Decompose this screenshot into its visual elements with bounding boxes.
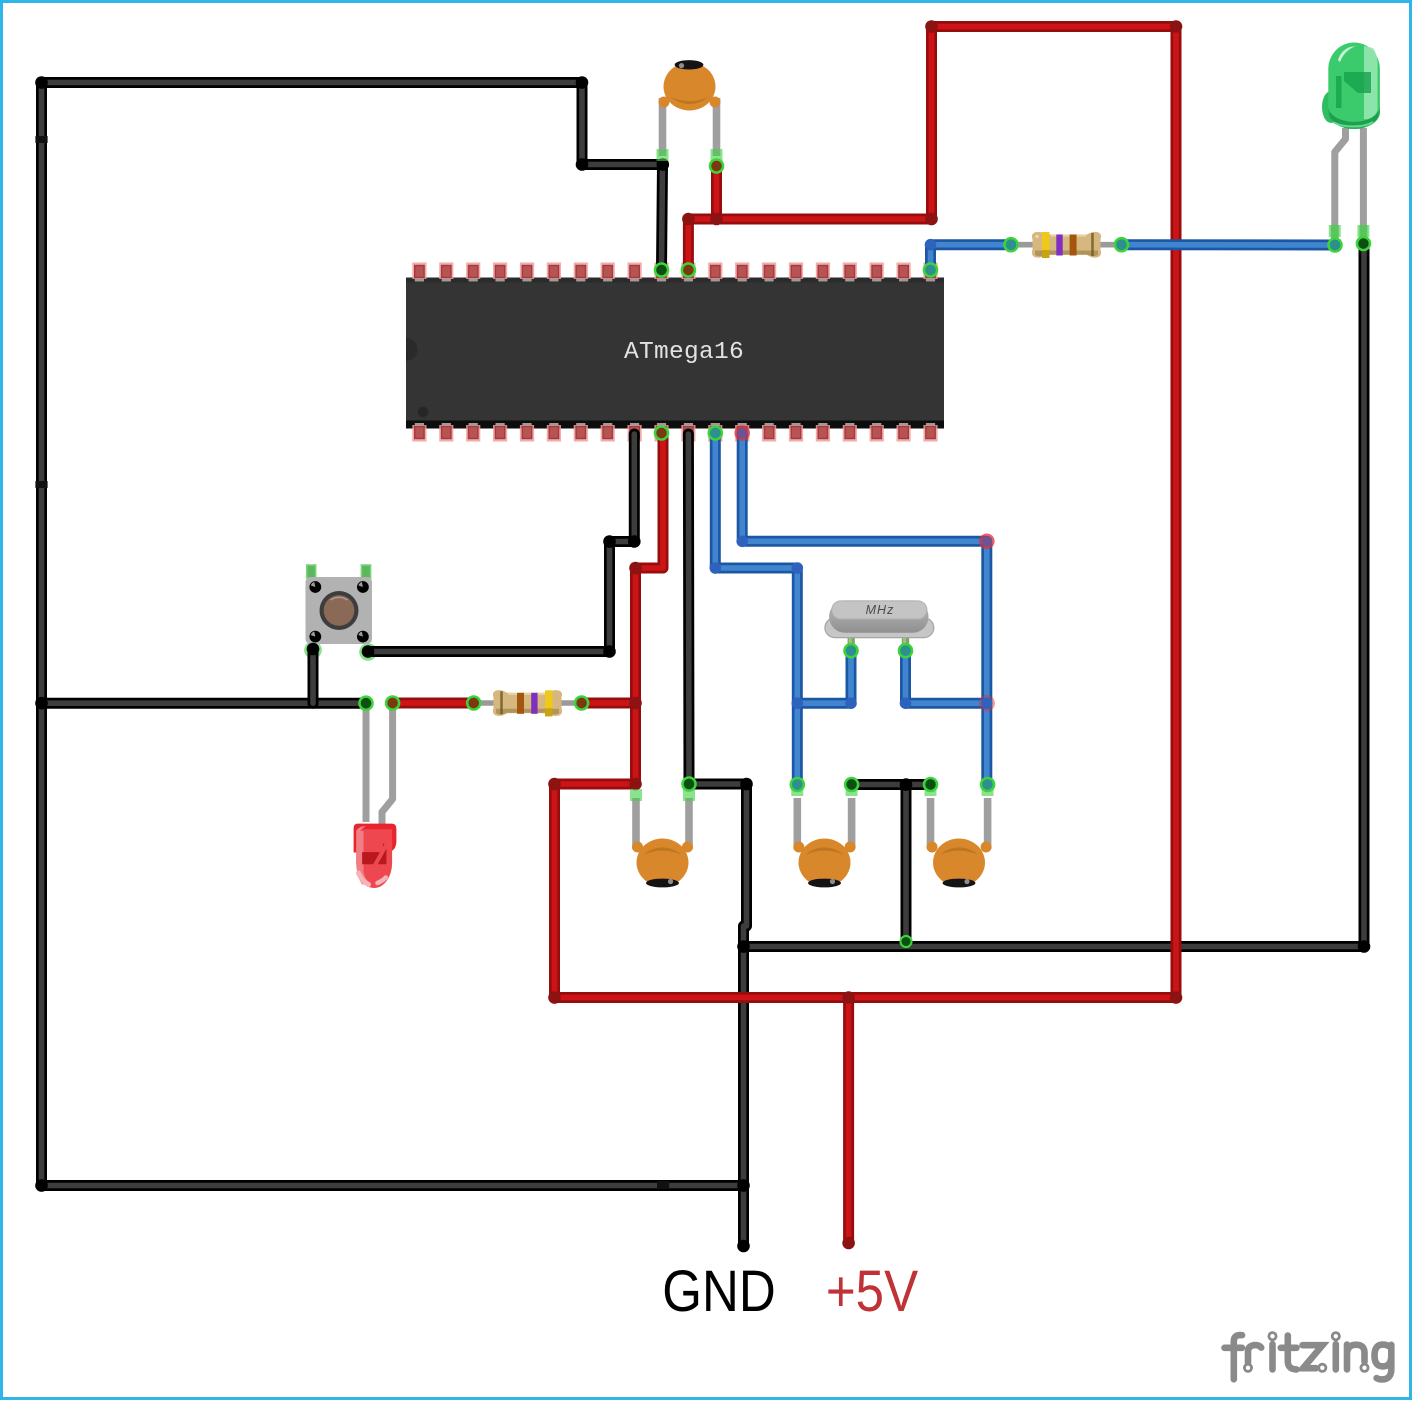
label GND [662, 1259, 775, 1324]
connection node (signal wire end) at 905.5,650.7 [899, 644, 912, 657]
junction (+5V net) at 635.5,703 [629, 697, 642, 710]
resistor R2 470R (brown-violet-yellow, red net) [474, 690, 581, 716]
fritzing logo [1225, 1333, 1392, 1380]
resistor R1 470R (yellow-violet-brown, blue net) [1012, 232, 1121, 258]
junction (+5V net) at 1176,997.5 [1170, 991, 1183, 1004]
pin highlight square at 689,795 [683, 789, 695, 801]
svg-text:GND: GND [662, 1259, 775, 1324]
wire IC pin20 up [925, 245, 936, 269]
wire XTAL2 path [742, 434, 987, 785]
wire GND bottom bus [744, 941, 1365, 952]
junction (+5V net) at 554.5,997.5 [548, 991, 561, 1004]
wire S1 pin4 right [368, 646, 610, 657]
junction (GND net) at 662.8,164.5 [657, 158, 670, 171]
junction (GND net) at 746.5,784 [740, 778, 753, 791]
bend (blue net) at 905.5,703.2 [900, 697, 912, 709]
connection node (+5V wire end) at 473.7,703 [467, 697, 480, 710]
junction (GND net) at 41.5,1185.5 [35, 1179, 48, 1192]
bend (blue net) at 797.3,568 [792, 562, 804, 574]
connection node (GND wire end) at 851.6,784.5 [845, 778, 858, 791]
junction (GND net) at 609.5,541.5 [603, 535, 616, 548]
bend node at 986.8,703.2 [980, 696, 994, 710]
label +5V [826, 1259, 919, 1324]
junction (GND net) at 743.5,1246 [737, 1240, 750, 1253]
wire joint mark at 41.5,140 [35, 136, 47, 143]
junction (GND net) at 313,649 [307, 643, 320, 656]
junction (+5V net) at 931.5,26.5 [925, 20, 938, 33]
wire GND top horizontal [42, 77, 583, 88]
junction (GND net) at 906,784.5 [900, 778, 913, 791]
wire R2 to +5V vertical [582, 698, 636, 709]
wire +5V to IC pin11 [683, 219, 694, 269]
wire junction down to bus [901, 785, 912, 942]
junction (+5V net) at 931.5,219 [925, 213, 938, 226]
junction (+5V net) at 848.6,997.5 [842, 991, 855, 1004]
wire LED D2 anode to R2 [393, 698, 474, 709]
junction (GND net) at 743.5,1185.5 [737, 1179, 750, 1192]
wire +5V stub [843, 998, 854, 1244]
connection node (GND wire end) at 930.5,784.5 [924, 778, 937, 791]
connection node (GND wire end) at 366,703.2 [360, 697, 373, 710]
junction (+5V net) at 716.5,219 [710, 213, 723, 226]
wire to crystal right pin [906, 651, 987, 704]
wire pin20 to R1 [931, 239, 1013, 250]
wire +5V mid vertical [636, 434, 664, 784]
connection node (+5V wire end) at 716.5,166 [710, 160, 723, 173]
connection node (GND wire end) at 689,784 [683, 778, 696, 791]
pin highlight square at 1363.4,231 [1357, 225, 1369, 237]
connection node (signal wire end) at 1335,245 [1329, 239, 1342, 252]
junction (+5V net) at 635.5,568 [629, 562, 642, 575]
connection node (GND wire end) at 661.5,270 [655, 264, 668, 277]
pin highlight square at 636,795 [630, 789, 642, 801]
svg-text:ATmega16: ATmega16 [624, 339, 744, 366]
crystal X1 (MHz) [825, 600, 934, 652]
connection node (signal wire end) at 797.3,784.5 [791, 778, 804, 791]
junction (+5V net) at 635.5,784 [629, 778, 642, 791]
wire R1 to LED D1 anode [1121, 239, 1335, 250]
bend (blue net) at 742.2,541.3 [736, 536, 748, 548]
junction (+5V net) at 554.5,784 [548, 778, 561, 791]
wire C3 right to junction [852, 779, 906, 790]
svg-text:MHz: MHz [866, 603, 895, 617]
junction (GND net) at 1364,946.5 [1358, 940, 1371, 953]
bend node at 986.8,541.3 [980, 535, 993, 548]
pin highlight square at 930.5,790 [925, 784, 937, 796]
connection node (+5V wire end) at 661.5,433 [655, 427, 668, 440]
pin highlight square at 662.5,155 [657, 149, 669, 161]
pin highlight square at 797.3,790 [791, 784, 803, 796]
junction (GND net) at 41.5,82.5 [35, 76, 48, 89]
junction (GND net) at 368,651.5 [362, 645, 375, 658]
wire joint mark at 663,1185 [657, 1181, 669, 1188]
junction (+5V net) at 688.4,219 [682, 213, 695, 226]
wire S1 riser [610, 434, 635, 652]
connection node (signal wire end) at 1121.5,244.7 [1115, 238, 1128, 251]
wire GND bottom long [42, 1180, 744, 1191]
pin highlight square at 987.6,790 [982, 784, 994, 796]
junction (GND net) at 41.5,703.2 [35, 697, 48, 710]
connection node (signal wire end) at 1011,244.7 [1005, 238, 1018, 251]
junction (GND net) at 634.3,541.5 [628, 535, 641, 548]
svg-text:+5V: +5V [826, 1259, 919, 1324]
connection node (signal wire end) at 987.6,784.5 [981, 778, 994, 791]
junction (GND net) at 582,82.5 [576, 76, 589, 89]
LED D2 (red 5mm) [354, 708, 397, 888]
connection node (XTAL2 pin) at 742.2,433 [736, 427, 749, 440]
connection node (GND wire end) at 906,941.5 [901, 936, 912, 947]
pin highlight square at 851.6,790 [846, 784, 858, 796]
wire C2 right to bus [689, 784, 747, 947]
wire GND stub [738, 947, 749, 1247]
wire +5V top riser [932, 27, 1177, 998]
connection node (+5V wire end) at 581.6,703 [575, 697, 588, 710]
wire to crystal left pin [797, 651, 851, 704]
wire XTAL1 path [715, 434, 797, 785]
capacitor C1 (0.1uF disc, top) [659, 60, 721, 156]
pushbutton S1 [304, 565, 377, 661]
wire bus up to LED D1 cathode [1359, 245, 1370, 947]
junction (GND net) at 609.5,651.5 [603, 645, 616, 658]
pin highlight square at 716.5,155 [711, 149, 723, 161]
wire S1 pin3 down [308, 649, 319, 703]
wire +5V top horizontal [688, 214, 931, 225]
connection node (signal wire end) at 715.3,433 [709, 427, 722, 440]
junction (+5V net) at 848.6,1243 [842, 1237, 855, 1250]
connection node (+5V wire end) at 392.6,703 [386, 697, 399, 710]
wire C1 left to IC pin [662, 165, 663, 270]
capacitor C3 (bottom middle) [793, 798, 855, 887]
wire IC pin to C2 right [683, 434, 695, 784]
connection node (+5V wire end) at 688.4,270 [682, 264, 695, 277]
bend (blue net) at 797.3,703.2 [792, 697, 804, 709]
LED D1 (green 5mm) [1322, 43, 1380, 243]
wire GND top right drop [577, 83, 588, 165]
pin highlight square at 1334.8,231 [1329, 225, 1341, 237]
bend (blue net) at 715.3,568 [710, 562, 722, 574]
connection node (signal wire end) at 930.5,270 [924, 264, 937, 277]
wire +5V bottom bus [555, 992, 1177, 1003]
bend (blue net) at 851,703.2 [845, 697, 857, 709]
bend (blue net) at 930.5,244.7 [925, 239, 937, 251]
capacitor C4 (bottom right) [927, 798, 992, 887]
wire GND left vertical [36, 83, 47, 1186]
wire joint mark at 41.5,485 [35, 481, 47, 488]
junction (+5V net) at 1176,26.5 [1170, 20, 1183, 33]
connection node (signal wire end) at 851,650.7 [845, 644, 858, 657]
IC U1 ATmega16 (DIP-40) [406, 263, 944, 442]
wire +5V left riser [555, 784, 636, 998]
capacitor C2 (bottom left) [632, 798, 693, 887]
junction (GND net) at 743.5,946.5 [737, 940, 750, 953]
wire C1 right down [711, 166, 722, 219]
connection node (GND wire end) at 1363.4,243.5 [1357, 237, 1370, 250]
junction (GND net) at 582,164.5 [576, 158, 589, 171]
wire GND to C1 left [582, 159, 663, 170]
wire junction to C4 left [906, 779, 931, 790]
wire GND to LED D2 cathode [42, 698, 367, 709]
